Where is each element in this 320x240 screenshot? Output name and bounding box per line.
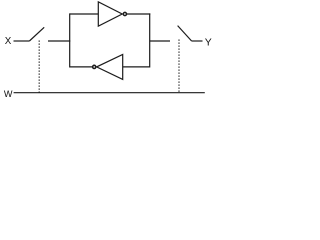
svg-text:W: W [4, 89, 13, 99]
node B right rail [149, 13, 151, 67]
wire switch to Y [192, 40, 203, 42]
dotted control line right [178, 40, 180, 93]
switch S2 arm [178, 26, 192, 41]
svg-text:Y: Y [205, 37, 212, 49]
wire switch to left rail [48, 40, 70, 42]
wire X to switch [14, 40, 30, 42]
svg-text:X: X [5, 36, 12, 47]
dotted control line left [38, 41, 40, 93]
wire U1 output to right rail [127, 13, 151, 15]
inverter U1 bubble [123, 12, 126, 15]
wire U2 output to left rail [70, 66, 92, 68]
inverter U1 triangle [98, 2, 122, 26]
switch S1 arm [29, 27, 44, 41]
inverter U2 bubble [93, 65, 96, 68]
wire right rail to switch [150, 40, 170, 42]
wire W rail [14, 92, 205, 94]
node A left rail [69, 13, 71, 67]
wire right rail to U2 input [123, 66, 150, 68]
inverter U2 triangle [97, 54, 123, 79]
wire top rail [70, 13, 99, 15]
